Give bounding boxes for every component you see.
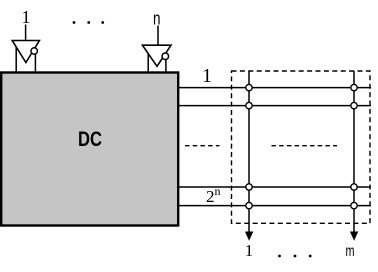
junction circle row2/colm — [351, 102, 357, 108]
inverter U2 (input n) — [142, 45, 171, 66]
decoder block DC — [1, 73, 178, 226]
wire row 2 — [179, 105, 372, 107]
junction circle row3/colm — [351, 184, 357, 190]
junction circle row2/col1 — [246, 102, 252, 108]
svg-text:1: 1 — [245, 241, 254, 260]
wire row 4 (2^n) — [179, 205, 372, 207]
wire true output of input n into DC — [147, 54, 149, 74]
wire input n — [157, 26, 159, 46]
junction circle row3/col1 — [246, 184, 252, 190]
bubble of inverter U2 — [162, 53, 169, 60]
dashed ellipsis rows (inner segment) — [272, 145, 338, 147]
dashed matrix boundary — [232, 71, 371, 223]
wire column 1 — [248, 71, 250, 233]
svg-text:DC: DC — [78, 128, 102, 151]
dashed ellipsis rows (left segment) — [185, 145, 220, 147]
wire true output of input 1 into DC — [15, 47, 17, 74]
dots between column labels — [278, 255, 312, 258]
arrow of column 1 — [245, 232, 253, 241]
wire column m — [353, 71, 355, 233]
wire inverted output of input 1 into DC — [34, 54, 36, 74]
svg-text:1: 1 — [22, 7, 31, 27]
svg-text:n: n — [153, 9, 161, 29]
junction circle row4/col1 — [246, 202, 252, 208]
svg-text:1: 1 — [202, 65, 212, 87]
dots between inputs — [73, 21, 105, 24]
junction circle row4/colm — [351, 202, 357, 208]
arrow of column m — [350, 232, 358, 241]
wire inverted output of input n into DC — [165, 60, 167, 74]
svg-text:m: m — [346, 243, 355, 260]
wire row 1 — [179, 87, 372, 89]
bubble of inverter U1 — [31, 48, 37, 54]
wire row 3 — [179, 186, 372, 188]
junction circle row1/colm — [351, 84, 357, 90]
wire input 1 — [25, 25, 27, 41]
inverter U1 (input 1) — [12, 41, 39, 63]
junction circle row1/col1 — [246, 84, 252, 90]
